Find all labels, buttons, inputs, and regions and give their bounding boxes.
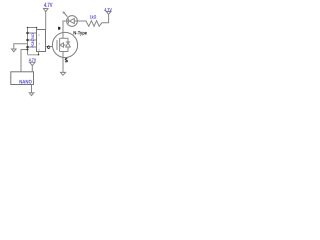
svg-text:1kΩ: 1kΩ (90, 15, 97, 20)
svg-text:N-Type: N-Type (73, 31, 87, 37)
svg-text:NANO: NANO (19, 79, 32, 85)
svg-text:4.7V: 4.7V (29, 57, 36, 62)
svg-text:4.7V: 4.7V (104, 7, 112, 13)
svg-text:PC817AD: PC817AD (31, 33, 35, 48)
svg-text:4.7V: 4.7V (44, 2, 53, 9)
